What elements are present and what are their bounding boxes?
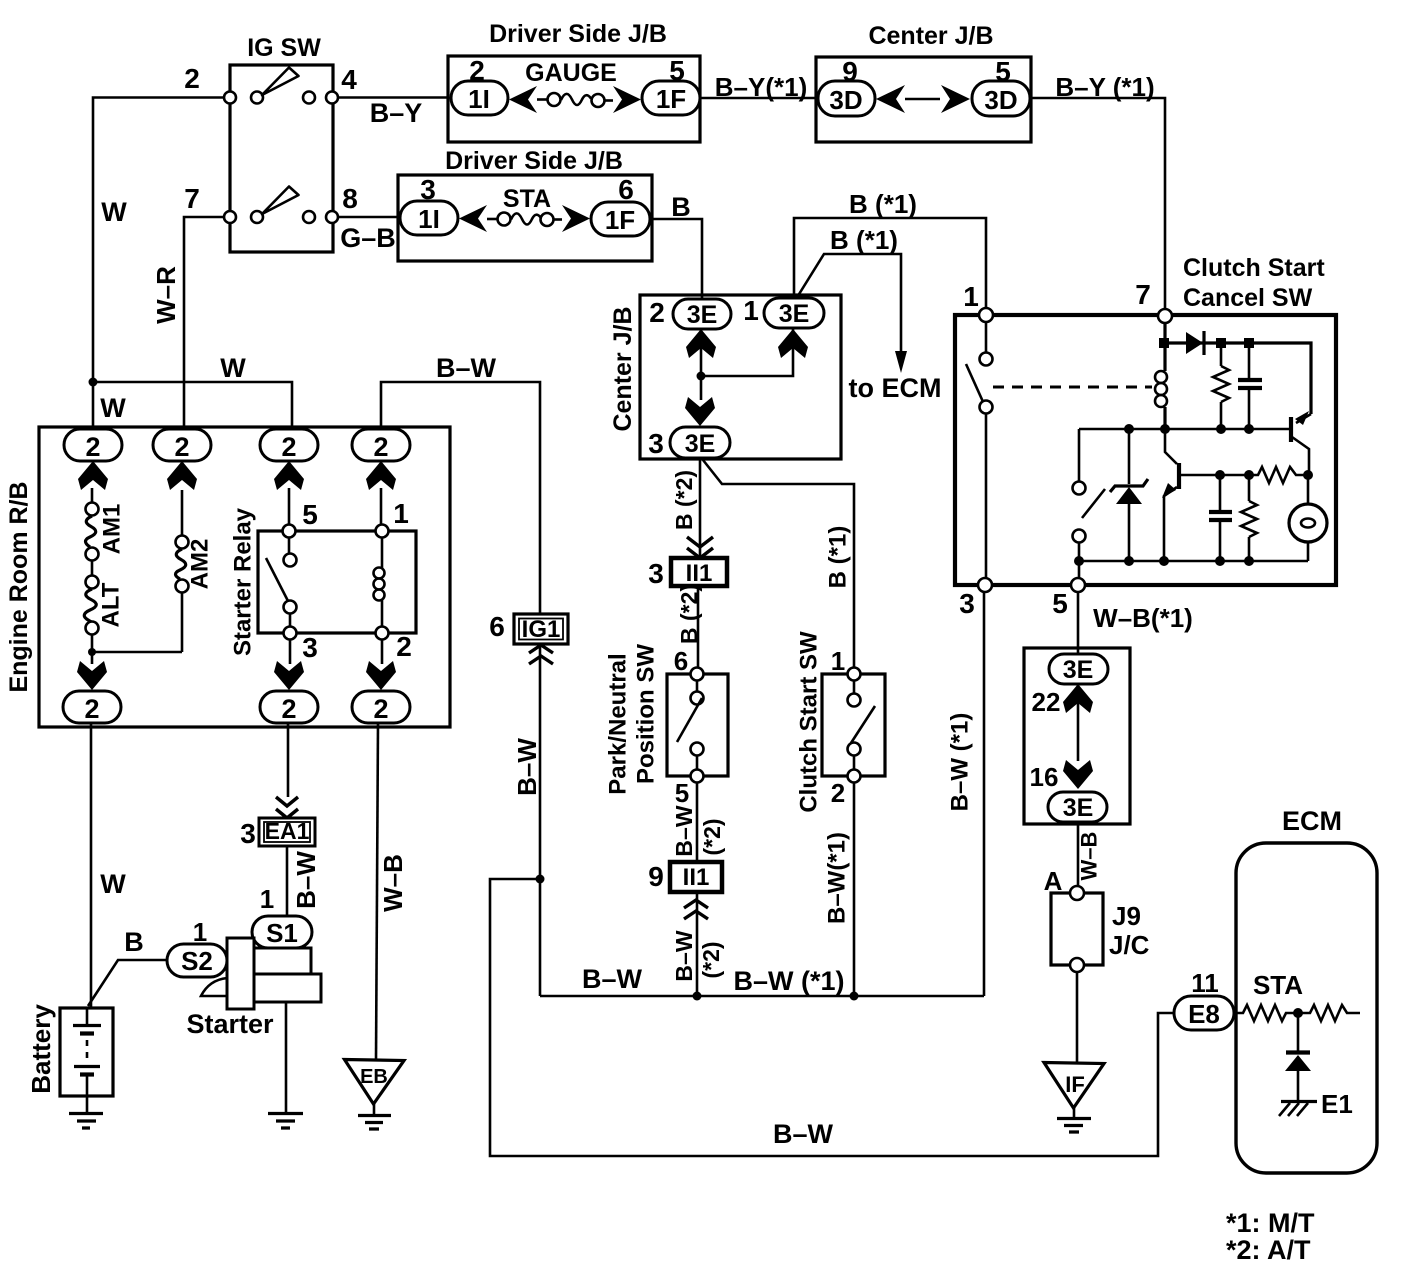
resistor R1: [1213, 343, 1229, 429]
node STA junction: [1293, 1008, 1303, 1018]
svg-text:6: 6: [674, 646, 688, 676]
wire B-Y pin4 to Driver Side J/B: [338, 96, 448, 99]
svg-text:Center J/B: Center J/B: [868, 22, 993, 50]
svg-text:Driver Side J/B: Driver Side J/B: [445, 147, 623, 175]
svg-text:22: 22: [1032, 687, 1061, 717]
svg-text:3E: 3E: [1063, 794, 1094, 822]
wire col3 to relay pin5: [288, 488, 291, 525]
svg-text:1: 1: [831, 646, 845, 676]
wire B-W from R/B col4 to IG1: [381, 382, 540, 614]
svg-text:B (*2): B (*2): [671, 470, 697, 530]
svg-text:EA1: EA1: [265, 818, 310, 844]
connector 1I pin 2: [451, 55, 508, 115]
connector 1F pin 6: [591, 174, 650, 236]
connector 2 col3 bottom: [260, 691, 318, 724]
cancel sw internal switch: [966, 322, 993, 578]
wire col1 upper: [91, 488, 94, 502]
svg-text:B–Y (*1): B–Y (*1): [1055, 72, 1154, 102]
wire B (*2) from II1 to park/neutral sw: [697, 586, 700, 667]
PN switch contacts: [677, 681, 704, 769]
wire pin2 to left rail: [93, 98, 224, 383]
PN pin 6: [674, 646, 704, 681]
wire starter to ground: [285, 1002, 288, 1113]
battery Battery: [26, 1004, 113, 1096]
junction block Center J/B (3E): [609, 295, 841, 459]
wire B-Y (*1) to Clutch Start Cancel SW pin7: [1031, 98, 1165, 309]
connector EA1: [240, 818, 315, 849]
wire B (*1) branch to clutch start sw: [703, 460, 854, 667]
node coil top: [1159, 338, 1169, 348]
svg-text:2: 2: [281, 694, 296, 724]
svg-text:W–B: W–B: [1077, 832, 1102, 881]
connector 3E pin 1: [743, 295, 824, 328]
svg-text:(*2): (*2): [699, 818, 725, 855]
svg-text:B–W: B–W: [671, 930, 697, 981]
node base rail right: [1303, 470, 1313, 480]
svg-text:Starter: Starter: [186, 1009, 274, 1039]
svg-text:Engine Room R/B: Engine Room R/B: [5, 481, 33, 692]
svg-text:2: 2: [174, 432, 189, 462]
arrow up into 3E pin1: [778, 329, 808, 358]
svg-text:B–W (*1): B–W (*1): [947, 713, 974, 812]
svg-text:3: 3: [959, 588, 975, 619]
fuse GAUGE: [537, 93, 613, 107]
svg-text:W–R: W–R: [151, 266, 181, 324]
connector S1: [252, 884, 312, 948]
svg-text:1: 1: [260, 884, 274, 914]
wire B-W to EA1: [287, 723, 290, 797]
chevrons down into EA1: [276, 797, 298, 818]
connector 2 col4 top: [352, 429, 410, 462]
arrow down 3E pin16: [1063, 760, 1093, 789]
svg-text:B–W: B–W: [512, 738, 542, 796]
node mid zener: [1124, 424, 1134, 434]
svg-text:7: 7: [1135, 279, 1151, 310]
svg-text:3D: 3D: [984, 85, 1017, 115]
svg-text:2: 2: [396, 631, 412, 662]
wire W rail down to R/B: [92, 382, 95, 429]
svg-text:(*2): (*2): [698, 941, 724, 978]
svg-text:Cancel SW: Cancel SW: [1183, 284, 1313, 312]
node rail junction clutch: [850, 992, 859, 1001]
chevrons down into II1: [687, 537, 713, 558]
wire W branch to starter relay column: [93, 382, 292, 429]
arrow right GAUGE: [613, 86, 641, 113]
switch IG SW lower contacts: [224, 187, 338, 224]
svg-text:3: 3: [240, 818, 256, 849]
svg-text:STA: STA: [503, 185, 551, 213]
wire B-W long bottom route to E8: [490, 879, 1174, 1156]
clutch sw contacts: [848, 681, 876, 769]
connector IG1: [489, 611, 568, 644]
wire mid rail to switch2: [1078, 429, 1081, 481]
connector 2 col1 bottom: [63, 691, 121, 724]
switch Park/Neutral Position SW: [605, 644, 729, 795]
svg-text:2: 2: [831, 778, 845, 808]
wire W-B(*1) pin5 down: [1077, 592, 1080, 654]
svg-text:4: 4: [341, 64, 357, 95]
svg-text:S1: S1: [266, 918, 298, 948]
svg-text:3: 3: [648, 428, 664, 459]
arrow up col4: [366, 461, 396, 490]
ground IF triangle: [1044, 1063, 1104, 1133]
wire B-W(*1) clutch down: [853, 783, 856, 996]
wire relay pin3 down: [289, 640, 292, 664]
svg-text:*1: M/T: *1: M/T: [1226, 1208, 1315, 1238]
connector 2 col4 bottom: [352, 691, 410, 724]
connector 3D pin 9: [818, 56, 875, 116]
svg-text:16: 16: [1030, 762, 1059, 792]
svg-text:J/C: J/C: [1109, 930, 1150, 960]
connector 2 col1 top: [64, 429, 122, 462]
ground EB triangle: [345, 1060, 405, 1130]
svg-text:2: 2: [84, 694, 99, 724]
relay Starter Relay box: [230, 507, 417, 656]
connector 2 col3 top: [260, 429, 318, 462]
node mid C1: [1244, 424, 1254, 434]
wire B-Y(*1) to Center J/B: [700, 97, 816, 100]
relay coil cancel sw: [1155, 323, 1167, 429]
arrow up col2: [167, 461, 197, 490]
svg-text:GAUGE: GAUGE: [525, 59, 617, 87]
svg-text:2: 2: [281, 432, 296, 462]
connector S2: [167, 917, 227, 977]
junction block 3E right: [1024, 648, 1130, 824]
svg-text:3E: 3E: [1063, 656, 1094, 684]
wire W-B to EB: [376, 723, 378, 1059]
svg-text:AM1: AM1: [99, 504, 126, 555]
wire W to battery: [90, 723, 93, 1008]
fusible link ALT: [84, 560, 124, 635]
connector 1F pin 5: [642, 55, 700, 115]
wire col1 to junction: [91, 634, 94, 664]
svg-text:6: 6: [489, 611, 505, 642]
node rail R1: [1216, 338, 1226, 348]
wire W-B to J9: [1077, 822, 1080, 893]
wire G-B pin8 to Driver Side J/B: [338, 216, 398, 219]
connector 2 col2 top: [153, 429, 211, 462]
arrow down col4: [366, 661, 396, 690]
svg-text:B–W: B–W: [436, 353, 497, 383]
switch 2 cancel sw: [1073, 482, 1106, 579]
connector 3E pin 2: [649, 297, 731, 329]
node B-W branch: [536, 875, 545, 884]
capacitor C1: [1238, 343, 1262, 429]
svg-text:2: 2: [373, 432, 388, 462]
arrow up col3: [274, 461, 304, 490]
svg-text:Starter Relay: Starter Relay: [230, 507, 257, 656]
svg-text:B–Y(*1): B–Y(*1): [715, 72, 807, 102]
svg-text:3D: 3D: [829, 85, 862, 115]
wire junction to AM2 column: [92, 651, 182, 654]
svg-text:3: 3: [302, 632, 318, 663]
relay block Engine Room R/B: [5, 427, 450, 727]
bottom rail cancel sw: [1079, 560, 1308, 563]
wire J9 to IF ground: [1076, 972, 1079, 1062]
svg-text:3E: 3E: [685, 430, 716, 458]
connector 3E pin 16: [1030, 762, 1107, 822]
connector 3E pin 3: [648, 427, 730, 459]
svg-text:3E: 3E: [779, 300, 810, 328]
svg-text:Battery: Battery: [26, 1004, 56, 1094]
pin 7 cancel sw: [1135, 279, 1172, 323]
svg-text:to ECM: to ECM: [849, 373, 942, 403]
svg-text:B–W: B–W: [582, 964, 643, 994]
pin 3 cancel sw: [959, 578, 992, 619]
wire inside 3E box: [701, 328, 793, 400]
svg-text:II1: II1: [686, 560, 713, 587]
relay switch contacts: [266, 538, 297, 627]
switch Clutch Start Cancel SW box: [955, 254, 1336, 585]
relay pin 3: [284, 627, 318, 664]
svg-text:5: 5: [302, 499, 318, 530]
ECU box ECM: [1236, 843, 1377, 1173]
arrow up 3E pin22: [1063, 684, 1093, 713]
svg-text:B (*1): B (*1): [849, 189, 917, 219]
svg-text:W–B(*1): W–B(*1): [1093, 603, 1193, 633]
svg-text:7: 7: [184, 183, 200, 214]
svg-text:B (*2): B (*2): [676, 584, 702, 644]
svg-text:II1: II1: [683, 864, 710, 891]
svg-text:W: W: [101, 197, 127, 227]
svg-text:IG1: IG1: [522, 616, 561, 643]
svg-text:E1: E1: [1321, 1089, 1353, 1119]
wire B-W (*2) PN down: [696, 783, 699, 996]
transistor Q1: [1291, 411, 1311, 475]
resistor R2 horizontal: [1220, 467, 1308, 483]
arrow left STA: [459, 205, 487, 232]
svg-text:1: 1: [393, 498, 409, 529]
svg-text:IG SW: IG SW: [247, 34, 321, 62]
arrow left 3D: [876, 85, 905, 113]
svg-text:6: 6: [618, 174, 634, 205]
connector II1 pin 9: [648, 861, 722, 892]
node rail C1: [1244, 338, 1254, 348]
svg-text:ECM: ECM: [1282, 806, 1342, 836]
svg-text:B–W (*1): B–W (*1): [733, 966, 844, 996]
svg-text:5: 5: [1052, 588, 1068, 619]
wire B-W (*1) right column from cancel sw pin3: [983, 592, 986, 996]
junction connector J9 J/C: [1051, 886, 1150, 972]
svg-text:Position SW: Position SW: [633, 644, 660, 784]
svg-text:W: W: [100, 869, 126, 899]
chevrons up out of IG1: [529, 645, 553, 664]
lamp indicator: [1289, 475, 1327, 561]
connector 3E pin 22: [1032, 654, 1108, 717]
arrow left GAUGE: [509, 86, 537, 113]
node junction W rail: [89, 378, 98, 387]
arrow right STA: [562, 205, 590, 232]
ground E1: [1279, 1089, 1353, 1119]
connector 3D pin 5: [972, 56, 1030, 116]
svg-text:8: 8: [342, 183, 358, 214]
top rail cancel sw: [1164, 343, 1311, 414]
arrow up col1: [78, 461, 108, 490]
connector 1I pin 3: [400, 174, 458, 235]
mid rail cancel sw: [1079, 428, 1290, 431]
svg-text:E8: E8: [1188, 999, 1220, 1029]
wire EA1 to S1: [286, 846, 289, 917]
resistor STA internal 2: [1298, 1005, 1360, 1021]
svg-text:Driver Side J/B: Driver Side J/B: [489, 20, 667, 48]
svg-text:STA: STA: [1253, 970, 1303, 1000]
arrow right 3D: [941, 85, 970, 113]
svg-text:EB: EB: [360, 1066, 388, 1088]
relay pin 1: [376, 488, 409, 538]
junction block Driver Side J/B (STA): [398, 147, 652, 261]
svg-text:3: 3: [648, 558, 664, 589]
svg-text:1F: 1F: [656, 84, 686, 114]
arrow down to 3E pin3: [685, 397, 715, 426]
transistor Q2: [1162, 429, 1220, 561]
svg-text:B: B: [124, 927, 144, 957]
svg-text:B (*1): B (*1): [825, 526, 852, 589]
fusible link AM2: [176, 490, 214, 652]
connector E8 pin 11: [1174, 968, 1234, 1030]
svg-text:1F: 1F: [605, 205, 635, 235]
svg-text:W–B: W–B: [378, 854, 408, 912]
wire between 3D arrows: [905, 98, 940, 101]
arrowhead to ECM: [895, 351, 907, 373]
relay pin 5: [283, 499, 318, 538]
svg-text:*2: A/T: *2: A/T: [1226, 1235, 1311, 1265]
resistor STA internal: [1234, 1005, 1298, 1021]
wire pin7 to AM2 column: [184, 217, 224, 429]
node mid coil: [1160, 424, 1170, 434]
wire B (*1) upper net to pin 1 of cancel switch: [794, 218, 986, 308]
clutch sw pin 2: [831, 770, 861, 809]
bottom rail nodes: [1074, 556, 1084, 566]
svg-text:S2: S2: [181, 946, 213, 976]
svg-text:Clutch Start: Clutch Start: [1183, 254, 1325, 282]
PN pin 5: [675, 770, 704, 809]
wire B from STA 1F down to Center J/B 3E pin2: [650, 219, 702, 298]
svg-text:G–B: G–B: [340, 223, 396, 253]
svg-text:W: W: [100, 393, 126, 423]
motor Starter body: [186, 938, 321, 1039]
wire B (*2) down from 3E pin3: [699, 458, 702, 558]
wire B-W IG1 down: [539, 644, 542, 996]
node rail junction PN: [693, 992, 702, 1001]
wire B (*1) to ECM branch: [796, 254, 901, 362]
connector II1 pin 3: [648, 558, 727, 589]
node mid R1: [1216, 424, 1226, 434]
svg-text:W: W: [220, 353, 246, 383]
node AM2 junction: [88, 648, 96, 656]
svg-text:B–W: B–W: [291, 851, 321, 909]
svg-text:B (*1): B (*1): [830, 225, 898, 255]
svg-text:1I: 1I: [418, 204, 440, 234]
svg-text:2: 2: [85, 432, 100, 462]
svg-text:11: 11: [1191, 968, 1219, 998]
switch IG SW upper contacts: [224, 68, 338, 104]
arrow down col1: [77, 661, 107, 690]
wire B-W horizontal rail: [540, 995, 984, 998]
chevrons up below II1 pin9: [684, 900, 708, 919]
ground battery: [69, 1096, 103, 1128]
dashed link to relay coil: [993, 386, 1152, 389]
ground starter: [268, 1114, 303, 1129]
wire relay pin2 down: [381, 640, 384, 664]
junction block Driver Side J/B (GAUGE): [448, 20, 700, 142]
fusible link AM1: [86, 503, 126, 561]
wire inside 3E right: [1077, 684, 1080, 761]
svg-text:5: 5: [675, 778, 689, 808]
svg-text:B–W: B–W: [773, 1119, 834, 1149]
node 3E junction: [697, 372, 706, 381]
junction block Center J/B (3D): [816, 22, 1031, 142]
svg-text:B–W(*1): B–W(*1): [824, 832, 851, 924]
svg-text:Park/Neutral: Park/Neutral: [605, 653, 632, 794]
svg-text:B: B: [671, 192, 691, 222]
relay coil: [374, 538, 385, 627]
resistor R3: [1241, 475, 1257, 561]
svg-text:Clutch Start SW: Clutch Start SW: [796, 631, 823, 813]
pin 1 cancel sw: [963, 281, 993, 322]
svg-text:2: 2: [649, 297, 665, 328]
svg-text:B–W: B–W: [671, 805, 697, 856]
switch IG SW box: [230, 34, 333, 252]
svg-text:Center J/B: Center J/B: [609, 306, 637, 431]
switch Clutch Start SW: [796, 631, 886, 813]
clutch sw pin 1: [831, 646, 861, 681]
svg-text:B–Y: B–Y: [370, 98, 423, 128]
svg-text:3E: 3E: [687, 301, 718, 329]
relay pin 2: [376, 627, 412, 663]
fuse STA: [487, 213, 562, 227]
svg-text:2: 2: [373, 694, 388, 724]
arrow down col3: [274, 661, 304, 690]
diode D1: [1186, 331, 1204, 355]
svg-text:1I: 1I: [468, 84, 490, 114]
svg-text:ALT: ALT: [98, 582, 125, 627]
svg-text:J9: J9: [1112, 901, 1141, 931]
pin 5 cancel sw: [1052, 578, 1085, 619]
svg-text:1: 1: [963, 281, 979, 312]
arrow up into 3E pin2: [686, 329, 716, 358]
svg-text:AM2: AM2: [187, 539, 214, 590]
wire battery to S2: [88, 960, 167, 1006]
diode to E1: [1285, 1013, 1311, 1101]
svg-text:IF: IF: [1065, 1072, 1085, 1097]
svg-text:1: 1: [743, 295, 759, 326]
zener diode ZD: [1110, 429, 1148, 561]
capacitor C2: [1209, 475, 1232, 561]
base rail nodes: [1215, 470, 1225, 480]
svg-text:9: 9: [648, 861, 664, 892]
svg-text:2: 2: [184, 63, 200, 94]
